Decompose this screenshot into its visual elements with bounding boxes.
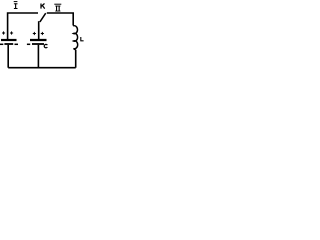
wire: top-left rail from corner to contact I — [8, 13, 38, 39]
label L — [80, 37, 83, 41]
wire: inductor bottom lead — [75, 50, 77, 68]
battery bottom plate (-) — [4, 43, 13, 45]
wire: capacitor bottom lead — [37, 45, 39, 68]
capacitor minus mark — [27, 43, 30, 45]
battery B (left branch) plus marks — [2, 31, 13, 34]
inductor L coil — [73, 26, 77, 50]
label K — [41, 4, 45, 9]
capacitor bottom plate — [32, 43, 44, 45]
label position II (overlined roman numeral) — [54, 4, 61, 12]
battery minus mark left — [0, 43, 3, 45]
label c — [44, 44, 47, 47]
wire: top-right rail from contact II to corner — [47, 13, 73, 26]
battery top plate (+) — [1, 39, 17, 41]
capacitor plus marks — [33, 32, 44, 35]
label position I (overlined roman numeral) — [14, 1, 18, 9]
wire: battery bottom lead — [7, 45, 9, 68]
capacitor C branch top lead — [38, 21, 40, 39]
background — [0, 0, 90, 90]
capacitor top plate — [30, 39, 47, 41]
wire: bottom rail — [8, 67, 76, 69]
switch K blade — [40, 13, 46, 22]
battery minus mark right — [15, 43, 19, 45]
